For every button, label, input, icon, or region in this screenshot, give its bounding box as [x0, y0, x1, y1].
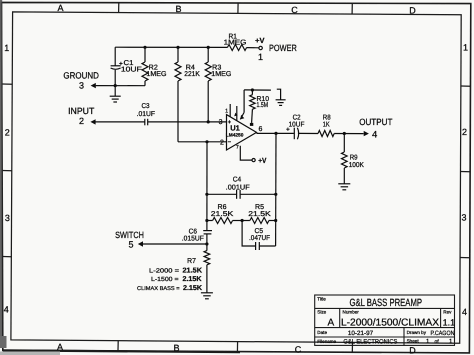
op-amp U1 LM4250 — [227, 90, 257, 162]
ground terminal GROUND 3 — [63, 70, 99, 90]
capacitor C2 10UF — [286, 128, 299, 140]
svg-text:Size: Size — [317, 310, 326, 315]
svg-text:D: D — [409, 346, 416, 355]
node: pin3 junction with R3 — [207, 120, 210, 123]
svg-text:100K: 100K — [349, 162, 364, 169]
wire switch — [143, 243, 207, 245]
svg-text:5: 5 — [128, 240, 133, 250]
ground symbol below R9 — [338, 184, 350, 190]
svg-text:+V: +V — [258, 156, 266, 165]
svg-text:1MEG: 1MEG — [224, 39, 247, 46]
svg-text:1.5M: 1.5M — [257, 102, 269, 109]
power rail wire — [115, 46, 259, 49]
node: C4 wire left junction — [205, 193, 208, 196]
svg-text:L-2000/1500/CLIMAX: L-2000/1500/CLIMAX — [341, 318, 439, 329]
svg-text:3: 3 — [461, 213, 466, 223]
svg-text:R7: R7 — [187, 258, 196, 265]
svg-text:Rev: Rev — [443, 310, 452, 315]
svg-text:4: 4 — [372, 130, 377, 141]
svg-text:1: 1 — [463, 43, 468, 53]
node: R6/R5 junction — [241, 219, 244, 222]
svg-text:Title: Title — [317, 297, 326, 302]
svg-text:OUTPUT: OUTPUT — [359, 117, 393, 127]
svg-text:21.5K: 21.5K — [211, 211, 234, 218]
svg-text:G&L BASS PREAMP: G&L BASS PREAMP — [350, 297, 423, 309]
svg-text:3: 3 — [5, 213, 10, 223]
svg-text:POWER: POWER — [269, 43, 297, 53]
resistor R1 — [227, 45, 246, 51]
svg-text:R9: R9 — [350, 155, 358, 162]
svg-text:2: 2 — [220, 139, 224, 146]
wire R4 to op-amp pin 2 — [178, 141, 226, 143]
svg-text:1K: 1K — [323, 121, 330, 128]
resistor R2 1MEG — [142, 47, 148, 85]
node: pin2 junction to feedback — [205, 140, 208, 143]
node: output/feedback junction — [274, 132, 277, 135]
svg-text:6: 6 — [259, 126, 263, 133]
resistor R8 1K — [318, 131, 334, 137]
svg-text:2: 2 — [462, 127, 467, 137]
svg-text:2: 2 — [5, 128, 10, 138]
node: output junction R9 — [343, 132, 346, 135]
svg-text:221K: 221K — [184, 71, 200, 78]
capacitor C6 .015UF — [203, 231, 212, 244]
svg-text:LM4250: LM4250 — [226, 133, 244, 139]
svg-text:10UF: 10UF — [121, 66, 142, 73]
ground symbol below R7 — [201, 293, 213, 299]
resistor R5 21.5K — [242, 218, 276, 224]
svg-text:+V: +V — [255, 36, 264, 45]
ground symbol below C1 — [110, 86, 121, 102]
wire C2 to R8 — [298, 132, 318, 134]
svg-text:CLIMAX BASS =: CLIMAX BASS = — [137, 286, 180, 292]
node: switch junction — [205, 242, 208, 245]
node: R6 left junction — [205, 219, 208, 222]
resistor R4 221K — [175, 47, 181, 141]
svg-text:of: of — [435, 339, 440, 345]
node: rail junction R4 — [176, 46, 179, 49]
left feedback column wire (pin2 to C6) — [206, 142, 208, 230]
svg-text:1MEG: 1MEG — [146, 71, 166, 78]
svg-text:1MEG: 1MEG — [211, 71, 231, 78]
svg-text:C3: C3 — [141, 103, 149, 110]
svg-text:A: A — [327, 317, 334, 328]
svg-text:.047UF: .047UF — [249, 235, 270, 242]
svg-text:10-21-97: 10-21-97 — [348, 330, 374, 337]
node: rail junction R3 — [207, 46, 210, 49]
switch terminal SWITCH 5 — [115, 230, 144, 250]
feedback column wire (output to C4/R5/C5) — [275, 133, 277, 246]
svg-text:C: C — [295, 344, 302, 354]
svg-text:D: D — [409, 6, 416, 16]
op-amp V+ pin terminal — [258, 156, 266, 165]
svg-text:21.5K: 21.5K — [248, 211, 271, 218]
svg-text:L-2000 =: L-2000 = — [149, 267, 180, 274]
capacitor C5 .047UF — [242, 221, 276, 251]
svg-text:R6: R6 — [218, 204, 227, 211]
wire input to C3 — [95, 121, 144, 123]
title block — [315, 295, 455, 345]
capacitor C1 10UF — [111, 47, 123, 85]
svg-text:B: B — [173, 343, 179, 353]
svg-text:10UF: 10UF — [289, 121, 305, 128]
wire ground rail — [96, 85, 145, 87]
svg-text:4: 4 — [462, 307, 467, 317]
svg-text:1: 1 — [449, 338, 453, 345]
svg-text:B: B — [175, 4, 181, 14]
svg-text:4: 4 — [4, 305, 9, 315]
svg-text:Number: Number — [343, 310, 360, 315]
svg-text:1.1: 1.1 — [443, 317, 456, 327]
svg-text:3: 3 — [219, 119, 223, 126]
capacitor C3 .01UF — [145, 119, 148, 126]
node: rail junction R2 — [143, 46, 146, 49]
node: ground junction at C1 — [114, 84, 117, 87]
svg-text:L-1500 =: L-1500 = — [151, 276, 179, 283]
svg-text:P.CAGON: P.CAGON — [431, 330, 455, 337]
ground symbol near R10 — [276, 89, 286, 105]
wire R8 to output — [334, 133, 363, 135]
svg-text:.01UF: .01UF — [137, 111, 155, 118]
resistor R10 1.5M — [244, 90, 271, 123]
resistor R7 — [204, 244, 210, 293]
svg-text:C6: C6 — [189, 229, 197, 236]
svg-text:U1: U1 — [230, 124, 240, 133]
output terminal OUTPUT 4 — [364, 131, 369, 136]
svg-text:3: 3 — [79, 80, 84, 90]
svg-text:1: 1 — [426, 338, 430, 345]
capacitor C4 .001UF — [207, 190, 276, 199]
svg-text:Date: Date — [317, 330, 327, 335]
svg-text:GROUND: GROUND — [63, 70, 99, 80]
svg-text:C: C — [291, 5, 298, 15]
svg-text:C4: C4 — [233, 176, 242, 183]
svg-text:INPUT: INPUT — [68, 106, 95, 116]
svg-text:Sheet: Sheet — [407, 339, 420, 344]
resistor R6 21.5K — [207, 218, 242, 224]
svg-text:2.15K: 2.15K — [183, 285, 202, 292]
svg-text:A: A — [57, 342, 63, 352]
svg-text:1: 1 — [258, 52, 263, 62]
svg-text:Filename: Filename — [317, 339, 336, 344]
svg-text:A: A — [57, 3, 63, 13]
input terminal INPUT 2 — [68, 106, 95, 126]
svg-text:2.15K: 2.15K — [183, 276, 202, 283]
svg-text:1: 1 — [4, 43, 9, 53]
node: feedback/R5 junction — [274, 219, 277, 222]
svg-text:.015UF: .015UF — [182, 236, 204, 243]
power terminal +V POWER 1 — [259, 46, 262, 49]
svg-text:21.5K: 21.5K — [183, 268, 203, 275]
svg-text:1: 1 — [225, 109, 228, 115]
svg-text:7: 7 — [236, 145, 239, 151]
node: feedback/C4 junction — [274, 193, 277, 196]
svg-text:.001UF: .001UF — [226, 184, 250, 191]
svg-text:R5: R5 — [255, 204, 264, 211]
wire C3 to op-amp pin 3 — [148, 121, 227, 123]
resistor R3 1MEG — [205, 47, 211, 121]
svg-text:SWITCH: SWITCH — [115, 230, 144, 240]
resistor R9 100K — [342, 134, 348, 184]
svg-text:Drawn by: Drawn by — [407, 330, 427, 335]
wire op-amp output — [257, 132, 294, 134]
svg-text:G&L ELECTRONICS: G&L ELECTRONICS — [343, 338, 397, 345]
svg-text:2: 2 — [79, 116, 84, 126]
